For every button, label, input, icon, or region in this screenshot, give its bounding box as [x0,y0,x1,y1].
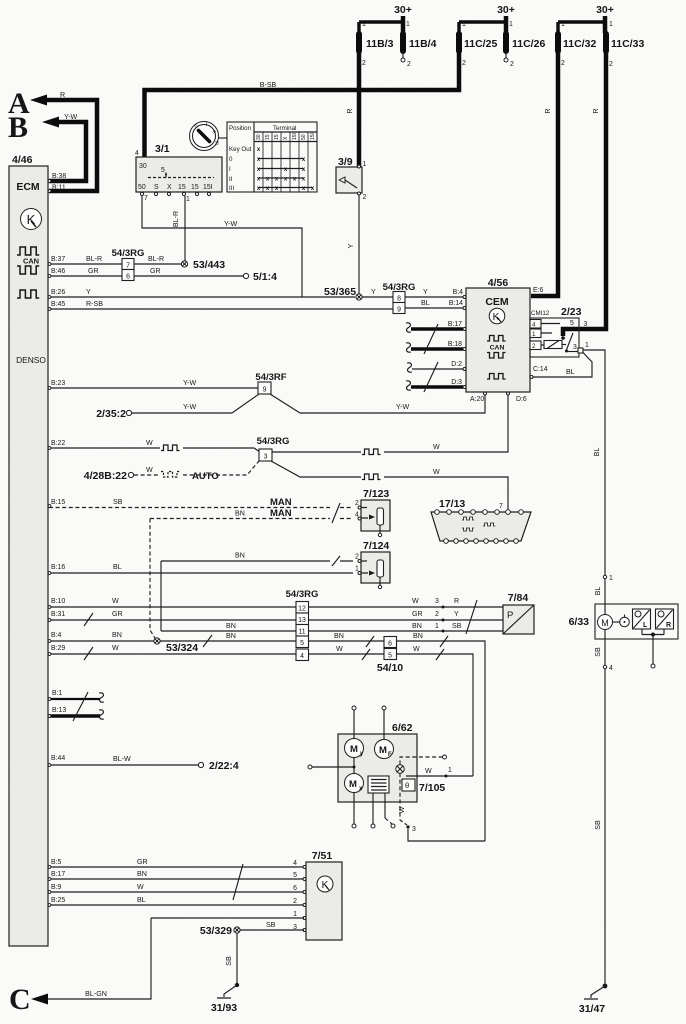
svg-text:3: 3 [412,826,416,833]
svg-text:B:29: B:29 [51,645,65,652]
svg-text:MAN: MAN [270,497,292,508]
svg-text:7: 7 [499,503,503,510]
svg-text:B:18: B:18 [448,341,462,348]
svg-text:6: 6 [388,641,392,648]
svg-text:GR: GR [88,267,99,275]
svg-text:11C/33: 11C/33 [611,38,644,50]
svg-text:7/124: 7/124 [363,540,389,552]
svg-text:SB: SB [266,921,276,929]
svg-text:15: 15 [178,184,186,191]
svg-text:11B/3: 11B/3 [366,38,394,50]
svg-text:W: W [112,597,119,605]
svg-text:BN: BN [235,552,245,560]
svg-text:4/46: 4/46 [12,154,33,166]
svg-text:W: W [412,597,419,605]
svg-text:W: W [433,443,440,451]
svg-text:B:22: B:22 [51,440,65,447]
svg-text:CAN: CAN [23,257,39,266]
svg-text:A:20: A:20 [470,396,484,403]
svg-text:S: S [154,184,159,191]
svg-text:BN: BN [226,622,236,630]
svg-text:R: R [60,91,65,99]
svg-text:II: II [229,176,233,183]
svg-text:11: 11 [298,629,305,636]
svg-text:R: R [666,622,671,629]
svg-text:K: K [493,312,500,323]
svg-text:4: 4 [532,322,536,329]
svg-text:Terminal: Terminal [273,125,296,132]
svg-text:17/13: 17/13 [439,498,465,510]
svg-text:2: 2 [510,61,514,68]
svg-text:30+: 30+ [596,4,614,16]
svg-text:R-SB: R-SB [86,300,103,308]
svg-text:I: I [229,166,231,173]
svg-text:BL: BL [113,563,122,571]
svg-text:7/105: 7/105 [419,782,445,794]
svg-text:B:17: B:17 [448,321,462,328]
svg-text:W: W [398,806,406,813]
svg-text:50: 50 [301,134,307,140]
svg-text:CEM: CEM [485,296,509,308]
svg-text:B:10: B:10 [51,598,65,605]
svg-text:SB: SB [594,820,602,830]
svg-text:B:15: B:15 [51,499,65,506]
svg-text:B:38: B:38 [52,173,66,180]
svg-text:2/23: 2/23 [561,306,582,318]
svg-text:BL-GN: BL-GN [85,990,107,998]
svg-text:2: 2 [561,60,565,67]
svg-text:Y-W: Y-W [64,113,77,121]
svg-text:7: 7 [126,263,130,270]
svg-text:GR: GR [150,267,161,275]
svg-text:54/10: 54/10 [377,662,403,674]
svg-text:1: 1 [363,161,367,168]
svg-text:54/3RG: 54/3RG [257,436,290,447]
svg-text:BL: BL [421,299,430,307]
svg-text:GR: GR [112,610,123,618]
svg-text:E:6: E:6 [533,287,544,294]
svg-text:15: 15 [191,184,199,191]
svg-text:B:44: B:44 [51,755,65,762]
svg-text:BN: BN [412,622,422,630]
svg-text:2/35:2: 2/35:2 [96,408,126,420]
svg-text:1: 1 [609,21,613,28]
svg-text:3: 3 [435,598,439,605]
svg-text:M: M [350,744,358,755]
svg-text:W: W [137,883,144,891]
svg-text:SB: SB [594,647,602,657]
svg-text:2: 2 [362,60,366,67]
svg-text:1: 1 [462,21,466,28]
svg-text:4/28B:22: 4/28B:22 [84,470,127,482]
svg-text:BL-W: BL-W [113,755,131,763]
svg-text:54/3RF: 54/3RF [255,372,286,383]
svg-text:6: 6 [293,885,297,892]
svg-text:BL: BL [137,896,146,904]
svg-text:50: 50 [138,184,146,191]
svg-text:M: M [379,745,387,756]
svg-text:B-SB: B-SB [260,81,277,89]
svg-text:5: 5 [300,640,304,647]
svg-text:DENSO: DENSO [16,355,46,365]
svg-text:1: 1 [609,575,613,582]
svg-text:13: 13 [298,617,306,624]
svg-text:C: C [9,983,31,1016]
svg-text:W: W [413,645,420,653]
svg-text:B:1: B:1 [52,690,63,697]
svg-text:5: 5 [388,653,392,660]
svg-text:30+: 30+ [394,4,412,16]
svg-text:W: W [336,645,343,653]
svg-text:L: L [643,622,648,629]
svg-text:B:13: B:13 [52,707,66,714]
svg-text:SB: SB [113,498,123,506]
svg-text:4: 4 [300,653,304,660]
svg-text:Y-W: Y-W [396,403,409,411]
svg-text:R: R [544,108,552,113]
svg-text:B:26: B:26 [51,289,65,296]
svg-text:Y: Y [86,288,91,296]
svg-text:SB: SB [225,956,233,966]
svg-text:CAN: CAN [490,345,505,352]
svg-text:BL: BL [593,448,601,457]
svg-text:ECM: ECM [16,181,40,193]
svg-text:31/47: 31/47 [579,1003,605,1015]
svg-text:B:14: B:14 [449,300,463,307]
svg-text:1: 1 [509,21,513,28]
svg-text:2: 2 [293,898,297,905]
svg-text:B:31: B:31 [51,611,65,618]
svg-text:1: 1 [186,196,190,203]
svg-text:54/3RG: 54/3RG [112,248,145,259]
svg-text:31/93: 31/93 [211,1002,237,1014]
svg-text:W: W [112,644,119,652]
svg-text:11C/32: 11C/32 [563,38,596,50]
svg-text:D:3: D:3 [451,379,462,386]
svg-text:B:45: B:45 [51,301,65,308]
svg-text:B: B [8,111,28,144]
svg-text:11B/4: 11B/4 [409,38,437,50]
svg-text:F: F [388,752,392,758]
svg-text:53/443: 53/443 [193,259,225,271]
svg-text:1: 1 [293,911,297,918]
svg-text:BN: BN [226,632,236,640]
svg-text:2: 2 [609,61,613,68]
svg-text:5: 5 [570,320,574,327]
svg-text:Y: Y [454,610,459,618]
svg-text:9: 9 [397,307,401,314]
svg-text:Key Out: Key Out [229,146,252,153]
svg-text:AUTO: AUTO [192,471,219,482]
svg-text:M: M [349,779,357,790]
svg-text:2/22:4: 2/22:4 [209,760,239,772]
svg-text:III: III [229,185,234,192]
svg-text:GR: GR [412,610,423,618]
svg-text:I: I [206,122,207,128]
svg-text:BL-R: BL-R [172,211,180,227]
svg-text:B:11: B:11 [52,185,66,192]
svg-text:3/1: 3/1 [155,143,170,155]
svg-text:4: 4 [609,665,613,672]
svg-text:BN: BN [413,632,423,640]
svg-text:W: W [433,468,440,476]
svg-text:30: 30 [139,163,147,170]
svg-text:30: 30 [256,134,262,140]
svg-text:2: 2 [407,61,411,68]
svg-text:W: W [146,466,153,474]
svg-text:BN: BN [112,631,122,639]
svg-text:15I: 15I [203,184,213,191]
svg-text:R: R [592,108,600,113]
svg-text:Y-W: Y-W [183,379,196,387]
svg-text:Y: Y [347,243,355,248]
svg-text:D:2: D:2 [451,361,462,368]
svg-text:3: 3 [573,344,577,351]
svg-text:15I: 15I [292,133,298,140]
svg-text:7/51: 7/51 [312,850,333,862]
svg-text:7: 7 [144,195,148,202]
svg-text:R: R [346,108,354,113]
svg-text:2: 2 [435,611,439,618]
svg-text:BL-R: BL-R [86,255,102,263]
svg-text:M: M [601,618,609,628]
svg-text:6/62: 6/62 [392,722,413,734]
svg-text:Y-W: Y-W [183,403,196,411]
svg-text:2: 2 [462,60,466,67]
svg-text:D:6: D:6 [516,396,527,403]
svg-text:1: 1 [532,331,536,338]
svg-text:1: 1 [435,623,439,630]
svg-text:53/324: 53/324 [166,642,198,654]
svg-text:11C/25: 11C/25 [464,38,497,50]
svg-text:4: 4 [293,860,297,867]
svg-text:3: 3 [584,321,588,328]
svg-text:1: 1 [406,21,410,28]
svg-text:30+: 30+ [497,4,515,16]
svg-text:W: W [425,767,432,775]
svg-text:1: 1 [362,21,366,28]
svg-text:15: 15 [274,134,280,140]
svg-text:Position: Position [229,125,252,132]
svg-text:53/365: 53/365 [324,286,356,298]
svg-text:2: 2 [363,194,367,201]
svg-text:Y: Y [423,288,428,296]
svg-text:BN: BN [235,510,245,518]
svg-text:7/123: 7/123 [363,488,389,500]
svg-text:15: 15 [265,134,271,140]
svg-text:B:17: B:17 [51,871,65,878]
svg-text:B:23: B:23 [51,380,65,387]
svg-text:6: 6 [126,274,130,281]
svg-text:1: 1 [585,342,589,349]
svg-text:Y: Y [371,288,376,296]
svg-text:3: 3 [264,454,268,461]
svg-text:X: X [167,184,172,191]
svg-text:8: 8 [397,296,401,303]
svg-text:B:25: B:25 [51,897,65,904]
svg-text:5: 5 [293,872,297,879]
svg-text:53/329: 53/329 [200,925,232,937]
svg-text:B:4: B:4 [51,632,62,639]
svg-text:6/33: 6/33 [569,616,590,628]
svg-text:2: 2 [532,343,536,350]
svg-text:3/9: 3/9 [338,156,353,168]
svg-text:0: 0 [229,156,233,163]
svg-text:B:46: B:46 [51,268,65,275]
svg-text:15I: 15I [310,133,316,140]
svg-text:7/84: 7/84 [508,592,529,604]
svg-text:11C/26: 11C/26 [512,38,545,50]
svg-text:9: 9 [263,387,267,394]
svg-text:CMI12: CMI12 [531,310,550,317]
svg-text:5: 5 [161,167,165,174]
svg-text:B:4: B:4 [453,289,464,296]
svg-text:1: 1 [561,21,565,28]
svg-text:B:16: B:16 [51,564,65,571]
svg-text:BN: BN [334,632,344,640]
svg-text:θ: θ [405,781,409,790]
svg-text:BL: BL [594,587,602,596]
svg-text:5/1:4: 5/1:4 [253,271,277,283]
svg-text:W: W [146,439,153,447]
svg-text:MAN: MAN [270,508,292,519]
svg-text:C:14: C:14 [533,366,548,373]
svg-text:B:5: B:5 [51,859,62,866]
svg-text:B:37: B:37 [51,256,65,263]
svg-text:4/56: 4/56 [488,277,509,289]
svg-text:54/3RG: 54/3RG [286,589,319,600]
svg-text:R: R [454,597,459,605]
svg-text:BL: BL [566,368,575,376]
svg-text:BL-R: BL-R [148,255,164,263]
svg-text:12: 12 [298,606,306,613]
svg-text:SB: SB [452,622,462,630]
svg-text:1: 1 [448,767,452,774]
svg-text:Y-W: Y-W [224,220,237,228]
svg-text:BN: BN [137,870,147,878]
svg-text:GR: GR [137,858,148,866]
svg-text:B:9: B:9 [51,884,62,891]
svg-text:P: P [507,610,513,621]
svg-text:4: 4 [135,150,139,157]
